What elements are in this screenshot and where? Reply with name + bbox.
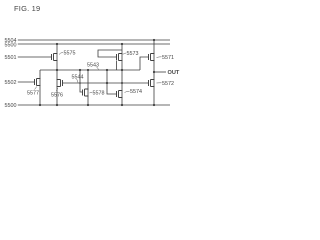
node dot [121,82,123,84]
transistor 5576 [57,80,63,87]
wire rail x57 [56,44,58,105]
svg-text:5502: 5502 [5,80,17,86]
node dot [121,69,123,71]
wire node A horizontal [40,69,140,71]
transistor 5573 [117,54,123,61]
svg-text:5575: 5575 [64,51,76,57]
svg-text:5500: 5500 [5,103,17,109]
transistor 5572 [149,80,155,87]
transistor 5571 [149,54,155,61]
node dot [87,104,89,106]
svg-text:5571: 5571 [162,55,174,61]
wire rail x88 [87,70,89,105]
wire rail x122 [121,44,123,105]
wire riser to gate of 5571 [140,57,149,70]
node dot [56,69,58,71]
svg-text:5543: 5543 [87,63,99,69]
svg-text:5574: 5574 [130,89,142,95]
wire H1 top line 5504 [18,39,170,41]
transistor 5577 [35,79,41,86]
node dot [79,69,81,71]
svg-text:5544: 5544 [72,75,84,81]
svg-text:5500: 5500 [5,43,17,49]
node dot [153,39,155,41]
wire rail x40 [39,70,41,105]
leader 5574 [125,91,130,92]
node dot [106,82,108,84]
svg-text:5576: 5576 [51,93,63,99]
wire H2 line 5500 [18,43,170,45]
wire bottom line 5500 [18,104,170,106]
leader 5543 [97,67,99,70]
svg-text:5573: 5573 [127,51,139,57]
wire diode loop of 5573 [98,50,122,57]
svg-text:5501: 5501 [5,55,17,61]
node dot [121,43,123,45]
node dot [56,43,58,45]
leader 5572 [157,82,162,84]
leader 5573 [123,53,126,55]
wire riser x80 to gate of 5578 [80,70,83,92]
leader 5577 [35,87,37,90]
node dot [106,69,108,71]
svg-text:FIG. 19: FIG. 19 [14,4,40,13]
wire node B horizontal [62,82,149,84]
node dot [79,82,81,84]
leader 5575 [59,53,63,55]
node dot [87,69,89,71]
wire source leg of 5573 [116,61,118,71]
transistor 5574 [117,91,123,98]
node dot [153,71,155,73]
svg-text:5577: 5577 [27,91,39,97]
transistor 5575 [52,54,58,61]
node dot [56,104,58,106]
wire rail x154 [153,40,155,105]
svg-text:5572: 5572 [162,81,174,87]
wire riser x107 to gate of 5574 [107,70,117,94]
node dot [121,104,123,106]
wire 5502 [18,81,35,83]
transistor 5578 [83,89,89,96]
leader 5544 [77,79,78,83]
leader 5576 [56,88,58,91]
leader 5571 [157,56,162,59]
wire 5501 [18,56,52,58]
svg-text:OUT: OUT [168,70,180,76]
wire output [154,71,166,73]
leader 5578 [90,91,93,94]
node dot [153,104,155,106]
node dot [39,104,41,106]
svg-text:5578: 5578 [93,91,105,97]
